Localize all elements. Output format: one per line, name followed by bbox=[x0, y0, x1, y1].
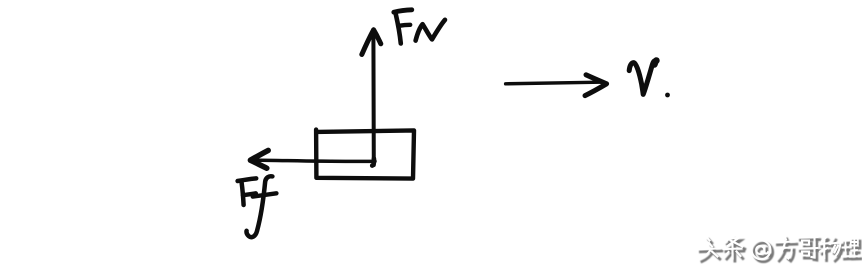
force vector FN arrowhead bbox=[362, 30, 381, 55]
velocity vector v shaft bbox=[506, 82, 600, 84]
force vector Ff shaft bbox=[253, 160, 375, 161]
force vector Ff arrowhead bbox=[250, 150, 268, 168]
label Ff bbox=[238, 178, 257, 181]
pen hook at Ff/FN junction bbox=[372, 159, 374, 166]
block (object) bbox=[316, 130, 414, 179]
label v with period bbox=[629, 61, 656, 95]
force vector FN shaft bbox=[371, 32, 375, 166]
velocity vector v arrowhead bbox=[585, 75, 607, 96]
label FN bbox=[394, 10, 412, 12]
